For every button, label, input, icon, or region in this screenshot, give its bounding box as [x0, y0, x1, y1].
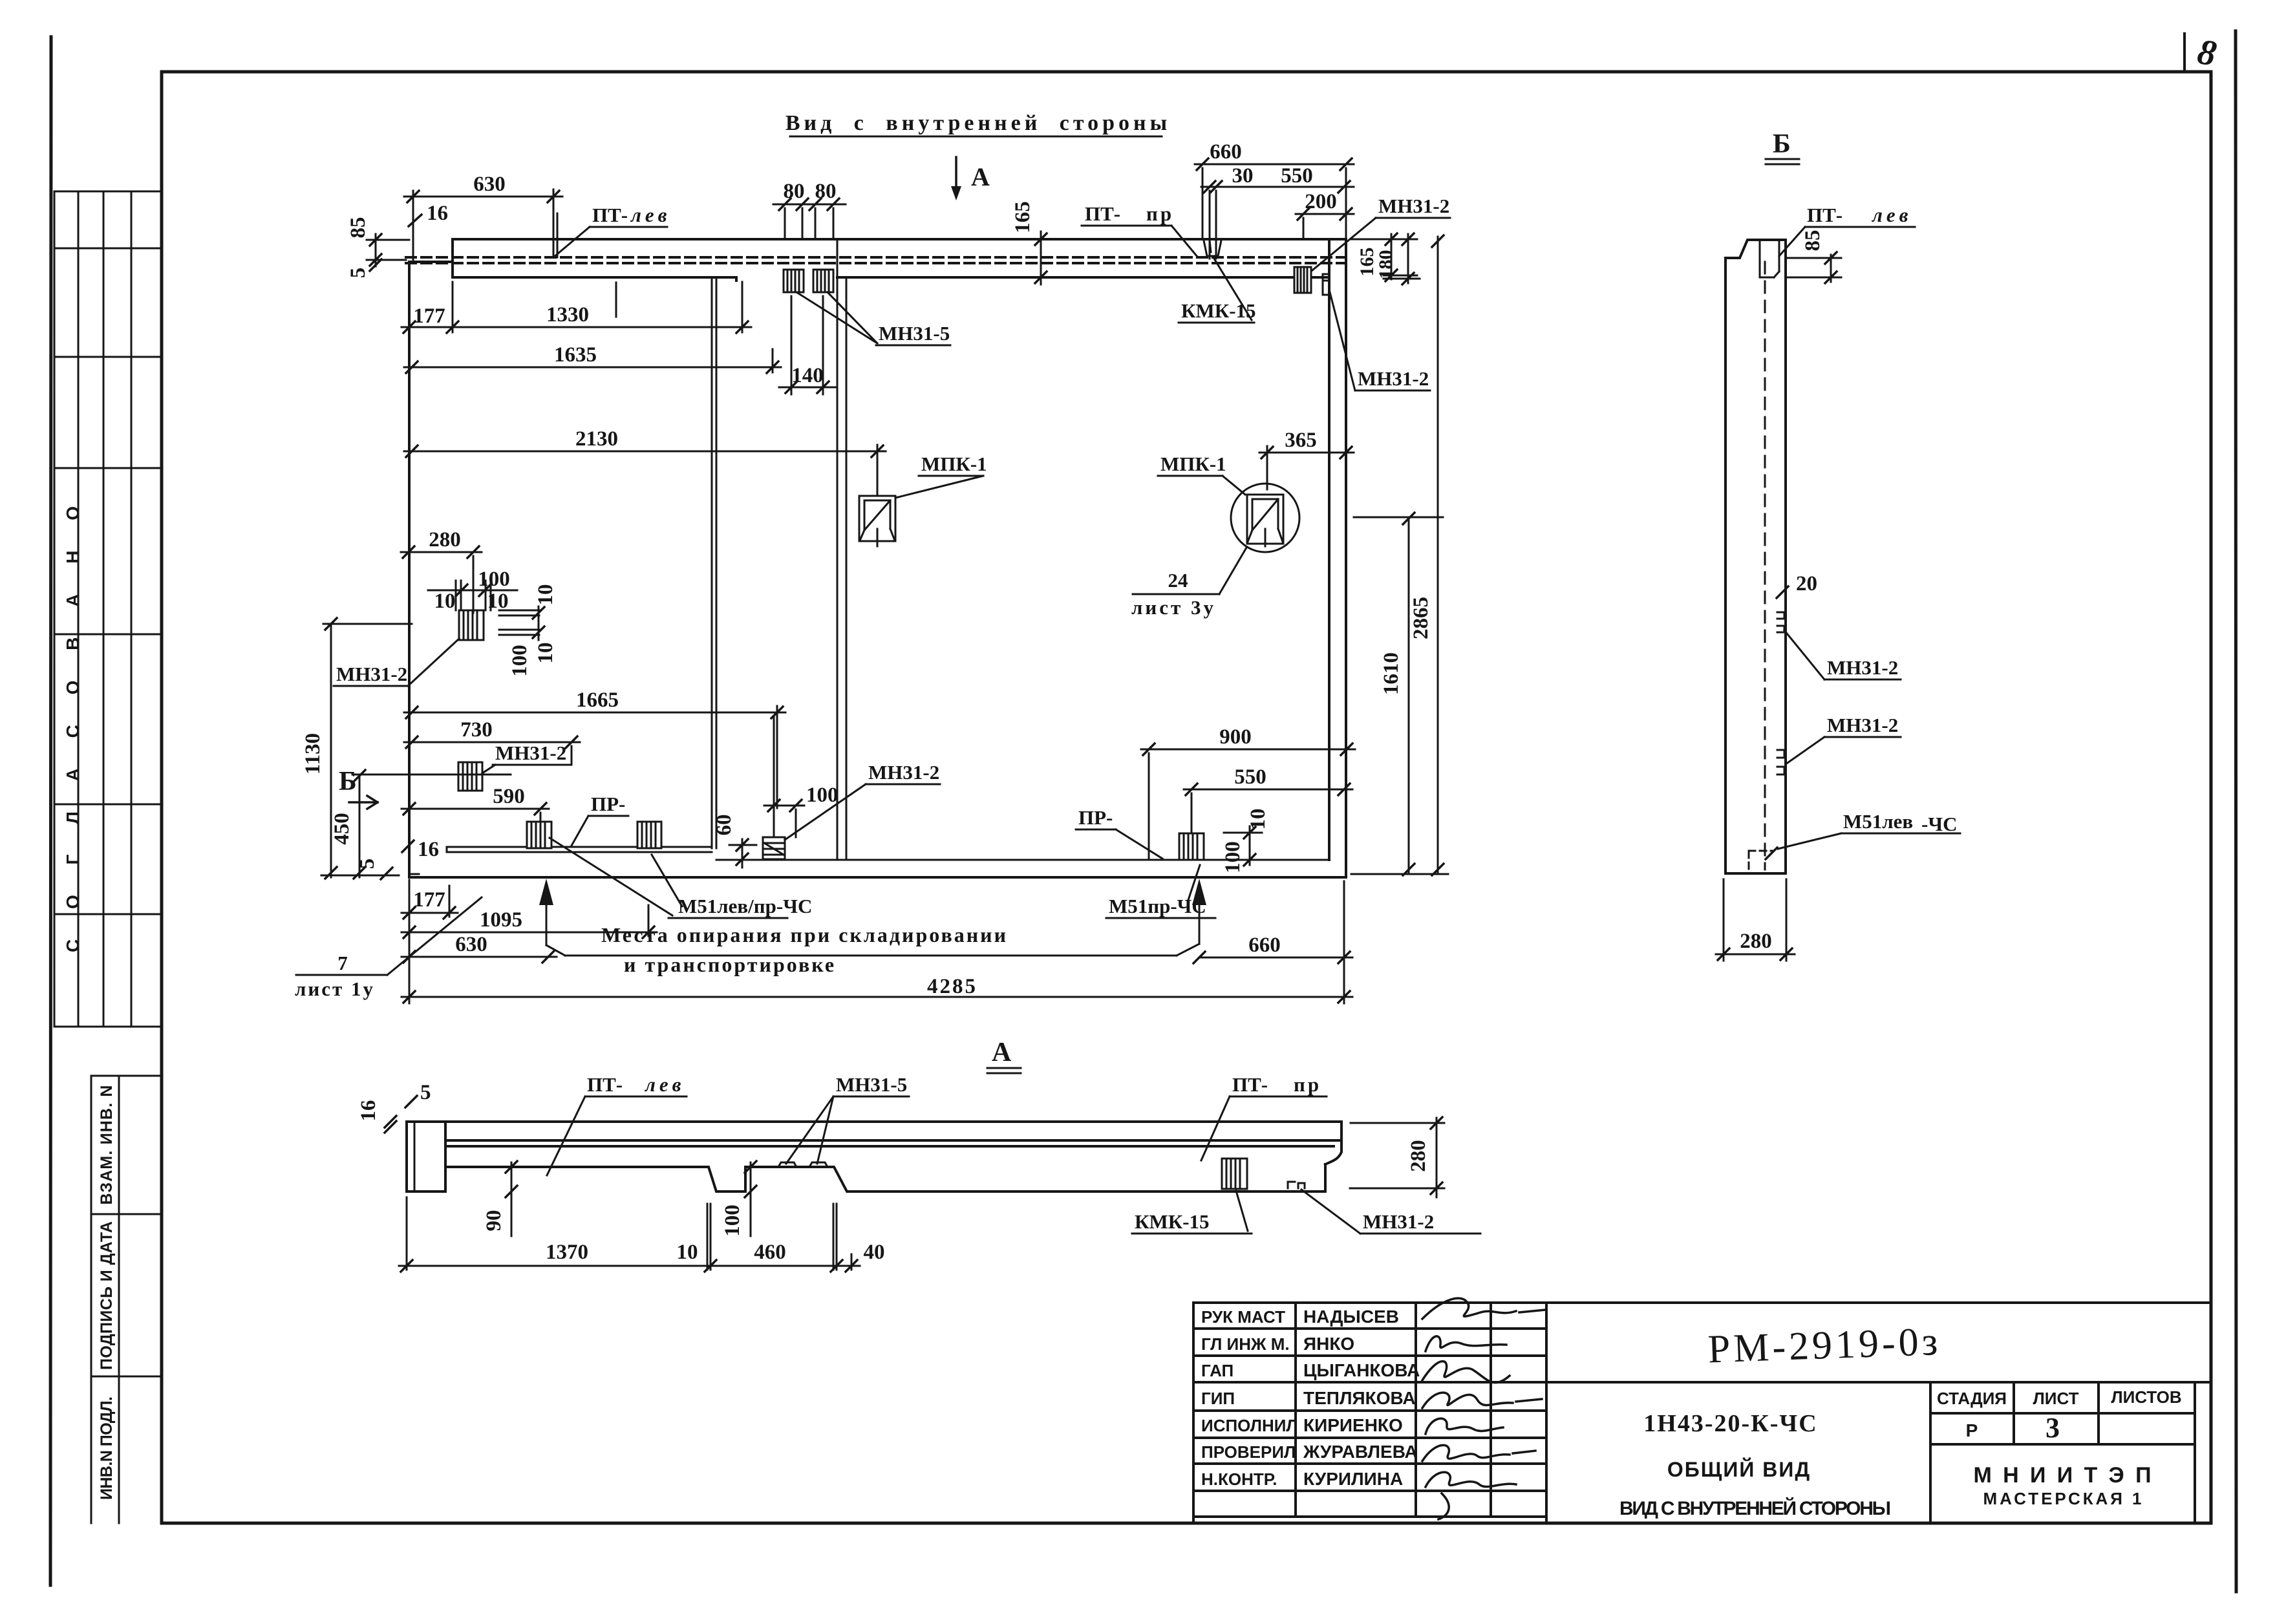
svg-text:МПК-1: МПК-1 [1160, 453, 1226, 475]
svg-text:ПРОВЕРИЛ: ПРОВЕРИЛ [1201, 1442, 1296, 1462]
svg-text:180: 180 [1375, 250, 1396, 279]
left stamp column upper table [54, 191, 162, 1027]
svg-text:ЦЫГАНКОВА: ЦЫГАНКОВА [1303, 1360, 1420, 1380]
svg-text:-ЧС: -ЧС [1921, 813, 1957, 835]
svg-text:7: 7 [337, 952, 348, 974]
svg-text:ПТ-: ПТ- [1085, 202, 1120, 225]
svg-text:ПТ-: ПТ- [592, 204, 628, 226]
svg-text:1370: 1370 [546, 1241, 588, 1264]
svg-text:ГАП: ГАП [1201, 1361, 1234, 1380]
svg-text:пр: пр [1146, 202, 1174, 225]
dim 10 100 10 small right of plate [538, 606, 540, 640]
anchor tab 1 section Б [1777, 612, 1784, 632]
dim 900 [1141, 749, 1355, 860]
svg-text:РМ-2919-0з: РМ-2919-0з [1707, 1319, 1942, 1372]
dim 100 section A [750, 1162, 752, 1236]
svg-text:МПК-1: МПК-1 [921, 453, 987, 475]
svg-text:16: 16 [357, 1100, 380, 1122]
svg-text:40: 40 [864, 1241, 885, 1264]
left stamp column lower table [91, 1076, 162, 1523]
svg-text:ГЛ ИНЖ М.: ГЛ ИНЖ М. [1201, 1334, 1290, 1354]
svg-text:Б: Б [339, 767, 357, 796]
svg-text:1665: 1665 [576, 689, 619, 712]
dim 280 section Б [1716, 879, 1795, 961]
svg-text:660: 660 [1210, 140, 1242, 164]
svg-text:КУРИЛИНА: КУРИЛИНА [1303, 1469, 1403, 1489]
anchor tab 2 section Б [1777, 750, 1784, 775]
svg-text:1635: 1635 [554, 343, 597, 367]
svg-text:177: 177 [413, 304, 445, 328]
svg-text:280: 280 [429, 528, 461, 551]
section A panel outline [407, 1122, 1341, 1191]
dashed axis lines of flange [406, 256, 1346, 259]
svg-text:МН31-2: МН31-2 [1827, 714, 1898, 736]
svg-text:10: 10 [534, 643, 557, 664]
section Б panel outline [1725, 240, 1786, 873]
svg-text:10: 10 [677, 1241, 698, 1264]
КМК-15 notch in flange [1204, 240, 1221, 256]
svg-text:КИРИЕНКО: КИРИЕНКО [1303, 1415, 1403, 1435]
svg-text:лев: лев [630, 204, 671, 226]
svg-text:ВЗАМ. ИНВ. N: ВЗАМ. ИНВ. N [98, 1085, 116, 1205]
dim 730 [404, 742, 580, 764]
svg-text:80: 80 [784, 180, 805, 203]
svg-text:60: 60 [712, 815, 736, 836]
dim 660 bottom right [1199, 881, 1352, 1003]
svg-text:МН31-2: МН31-2 [1363, 1210, 1434, 1233]
plate МН31-5 left [784, 270, 804, 292]
svg-text:365: 365 [1285, 429, 1317, 452]
svg-text:1330: 1330 [546, 303, 589, 326]
svg-text:3: 3 [2046, 1412, 2060, 1444]
svg-text:ПОДПИСЬ И ДАТА: ПОДПИСЬ И ДАТА [98, 1221, 116, 1370]
svg-text:177: 177 [413, 888, 445, 912]
svg-text:450: 450 [330, 813, 354, 845]
svg-text:590: 590 [493, 785, 525, 808]
svg-text:ВИД С ВНУТРЕННЕЙ СТОРОНЫ: ВИД С ВНУТРЕННЕЙ СТОРОНЫ [1619, 1497, 1891, 1519]
dim 177 bottom [401, 880, 458, 1003]
svg-text:ПТ-: ПТ- [587, 1073, 623, 1096]
support bracket line [565, 955, 1177, 957]
mid joint lines [837, 240, 846, 860]
section A top slab lines [445, 1140, 1341, 1146]
section Б dashed centerline [1764, 262, 1766, 870]
section arrow A (down) [955, 157, 957, 193]
svg-text:660: 660 [1248, 934, 1281, 957]
svg-text:ИНВ.N ПОДЛ.: ИНВ.N ПОДЛ. [98, 1396, 116, 1500]
dim 280 section A right [1350, 1118, 1444, 1197]
svg-text:лев: лев [1871, 204, 1912, 226]
svg-text:30: 30 [1232, 164, 1254, 187]
svg-text:М51лев: М51лев [1843, 810, 1913, 833]
svg-text:ПР-: ПР- [591, 793, 625, 815]
panel outline main view [409, 239, 1346, 877]
МПК-1 symbol left [859, 496, 895, 546]
dim 80 80 top [773, 204, 846, 239]
svg-text:лист 3у: лист 3у [1131, 596, 1216, 619]
svg-text:85: 85 [347, 217, 370, 239]
svg-text:ИСПОЛНИЛ: ИСПОЛНИЛ [1201, 1416, 1298, 1435]
plate МН31-2 top right [1294, 267, 1311, 293]
svg-text:100: 100 [1221, 841, 1244, 873]
sheet outer right edge [2236, 31, 2236, 1592]
flange bottom edge [453, 277, 1329, 281]
plate М51лев [527, 822, 551, 848]
svg-text:16: 16 [418, 838, 439, 861]
svg-text:Р: Р [1966, 1420, 1978, 1440]
МН31-5 bumps section A [778, 1162, 828, 1167]
svg-text:730: 730 [460, 718, 493, 742]
mark 20 section Б [1777, 586, 1788, 598]
svg-text:РУК МАСТ: РУК МАСТ [1201, 1307, 1285, 1327]
svg-text:А: А [971, 162, 990, 191]
svg-text:20: 20 [1796, 572, 1817, 595]
plate МН31-2 mid bottom horizontal hatch [763, 837, 785, 859]
dim 16 section A [385, 1116, 396, 1133]
dim 85 left [367, 234, 409, 266]
section Б ПТ groove [1760, 242, 1779, 277]
svg-text:10: 10 [534, 584, 557, 606]
svg-text:5: 5 [347, 268, 370, 279]
svg-text:ТЕПЛЯКОВА: ТЕПЛЯКОВА [1303, 1388, 1416, 1408]
dim 5 bottom left [381, 868, 392, 879]
svg-text:М51лев/пр-ЧС: М51лев/пр-ЧС [678, 895, 812, 917]
svg-text:МН31-2: МН31-2 [1358, 367, 1429, 390]
svg-text:100: 100 [508, 645, 531, 677]
svg-text:165: 165 [1011, 201, 1034, 233]
plate МН31-2 upper left [459, 610, 484, 640]
dim 2130 [404, 445, 886, 496]
svg-text:ГИП: ГИП [1201, 1389, 1235, 1408]
svg-text:ПТ-: ПТ- [1807, 204, 1843, 226]
svg-text:МН31-5: МН31-5 [836, 1073, 907, 1096]
dim 100 with 10 10 [428, 581, 517, 610]
dim 1665 [404, 706, 785, 808]
svg-text:МН31-2: МН31-2 [336, 663, 407, 685]
bottom ledge left (double) [447, 847, 712, 852]
dim 4285 [401, 996, 1352, 998]
svg-text:630: 630 [473, 173, 506, 196]
svg-text:Н.КОНТР.: Н.КОНТР. [1201, 1469, 1277, 1489]
svg-text:2130: 2130 [575, 427, 618, 451]
svg-text:4285: 4285 [927, 975, 977, 998]
dim 200 [1296, 214, 1354, 239]
dim 1095 [401, 905, 657, 936]
svg-text:85: 85 [1801, 230, 1824, 251]
svg-text:100: 100 [478, 568, 510, 591]
dim 165 mid top [1040, 231, 1042, 284]
dim 2865 right [1437, 237, 1439, 874]
svg-text:1130: 1130 [301, 733, 325, 775]
page number box top right [2183, 34, 2186, 72]
svg-text:1610: 1610 [1380, 652, 1403, 695]
svg-text:МАСТЕРСКАЯ 1: МАСТЕРСКАЯ 1 [1983, 1489, 2142, 1508]
svg-text:М51пр-ЧС: М51пр-ЧС [1109, 895, 1206, 917]
section A web bottom profile [445, 1164, 1325, 1191]
support arrow left [539, 879, 553, 905]
dim 550 right [1184, 789, 1352, 833]
КМК-15 plate section A [1222, 1159, 1247, 1189]
svg-text:550: 550 [1234, 765, 1266, 789]
plate МН31-5 right [813, 270, 833, 292]
svg-text:140: 140 [791, 364, 824, 387]
dim 1610 right [1351, 517, 1448, 874]
dim line bottom section A [399, 1197, 860, 1270]
svg-text:Вид с внутренней стороны: Вид с внутренней стороны [785, 111, 1171, 135]
dim 60 [729, 839, 756, 868]
bottom ledge right [716, 859, 1329, 861]
svg-text:550: 550 [1281, 164, 1313, 187]
svg-text:1Н43-20-К-ЧС: 1Н43-20-К-ЧС [1643, 1410, 1817, 1437]
svg-text:Места опирания при складирован: Места опирания при складировании [601, 923, 1008, 946]
dim 280 left [401, 552, 482, 613]
svg-text:1095: 1095 [480, 908, 522, 932]
svg-text:ЯНКО: ЯНКО [1303, 1334, 1354, 1354]
dim 10 100 right bottom [1224, 826, 1262, 865]
dim 5 left [370, 259, 381, 271]
dim 165 180 right [1351, 234, 1420, 283]
inner right rib line [1328, 239, 1330, 860]
svg-text:СТАДИЯ: СТАДИЯ [1937, 1389, 2007, 1408]
support arrow right [1192, 879, 1206, 905]
dim 1130 left vertical [321, 624, 412, 877]
dim 16 bottom left [402, 840, 414, 852]
svg-text:ЛИСТ: ЛИСТ [2033, 1389, 2079, 1408]
panel bottom edge second line [409, 873, 419, 875]
dim 630 bottom [401, 956, 557, 958]
svg-text:10: 10 [1246, 809, 1270, 830]
svg-text:МН31-2: МН31-2 [495, 742, 566, 764]
plate МН31-2 left mid [458, 762, 482, 791]
svg-text:ЖУРАВЛЕВА: ЖУРАВЛЕВА [1303, 1442, 1418, 1462]
plate М51пр right [1179, 833, 1204, 860]
flange step lines below left flange [712, 277, 716, 848]
svg-text:лев: лев [644, 1073, 685, 1096]
svg-text:Б: Б [1773, 129, 1791, 159]
dim 590 [401, 809, 549, 822]
dim 450 left vertical [359, 776, 361, 877]
МПК-1 symbol right circled [1231, 484, 1299, 552]
dim 365 [1259, 446, 1354, 489]
svg-text:900: 900 [1219, 725, 1252, 749]
svg-text:МН31-2: МН31-2 [1827, 656, 1898, 679]
svg-text:200: 200 [1305, 190, 1337, 213]
svg-text:5: 5 [356, 859, 379, 870]
svg-text:ПР-: ПР- [1078, 806, 1113, 829]
dim 5 section A [405, 1096, 417, 1107]
svg-text:280: 280 [1740, 930, 1772, 953]
svg-text:НАДЫСЕВ: НАДЫСЕВ [1303, 1307, 1399, 1327]
svg-text:МН31-5: МН31-5 [879, 322, 950, 345]
dim 85 section Б [1787, 255, 1841, 282]
svg-text:МН31-2: МН31-2 [868, 761, 939, 784]
section A right end [1325, 1122, 1341, 1164]
svg-text:А: А [992, 1038, 1012, 1067]
svg-text:80: 80 [815, 180, 837, 203]
svg-text:и транспортировке: и транспортировке [624, 953, 836, 976]
title block table lines [1193, 1303, 2211, 1523]
dim 90 section A [511, 1162, 513, 1236]
svg-text:5: 5 [420, 1081, 431, 1104]
svg-text:460: 460 [754, 1241, 786, 1264]
svg-text:КМК-15: КМК-15 [1181, 299, 1256, 322]
svg-text:2865: 2865 [1409, 597, 1433, 639]
dim 1330 [401, 282, 751, 332]
anchor edge plates near 280 dim [499, 610, 539, 635]
svg-text:630: 630 [455, 933, 487, 956]
svg-text:24: 24 [1168, 569, 1188, 592]
svg-text:90: 90 [482, 1210, 506, 1232]
svg-text:10: 10 [487, 590, 509, 613]
anchor plate edge-on right rib [1323, 274, 1329, 295]
svg-text:10: 10 [434, 590, 456, 613]
svg-text:КМК-15: КМК-15 [1135, 1210, 1210, 1233]
sheet outer left edge [50, 37, 51, 1585]
svg-text:МН31-2: МН31-2 [1378, 195, 1449, 217]
svg-text:ОБЩИЙ ВИД: ОБЩИЙ ВИД [1667, 1458, 1811, 1481]
dim 140 [779, 296, 835, 394]
dim 660 top right [1195, 164, 1354, 239]
dim 100 mid bottom [764, 716, 804, 837]
signatures squiggles [1422, 1298, 1545, 1319]
svg-text:лист 1у: лист 1у [295, 978, 375, 1000]
svg-text:100: 100 [806, 784, 839, 807]
dim 30 550 [1201, 187, 1354, 259]
plate М51пр left area [637, 822, 661, 848]
dim 1635 [404, 349, 781, 372]
М51 dashed edge bottom section Б [1749, 851, 1773, 869]
dim 630 top left [404, 189, 562, 262]
svg-text:100: 100 [721, 1204, 744, 1237]
svg-text:ЛИСТОВ: ЛИСТОВ [2111, 1387, 2181, 1407]
svg-text:16: 16 [427, 202, 448, 225]
svg-text:280: 280 [1407, 1140, 1430, 1172]
svg-text:пр: пр [1294, 1073, 1321, 1096]
МН31-2 hook section A [1288, 1182, 1305, 1188]
dim 16 top left [409, 215, 422, 226]
svg-text:ПТ-: ПТ- [1232, 1073, 1268, 1096]
